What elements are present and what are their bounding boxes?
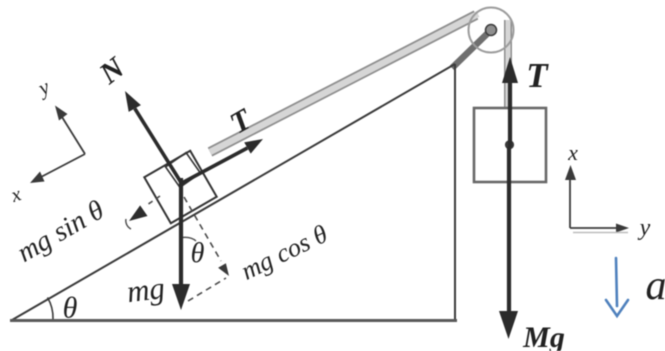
svg-text:x: x	[8, 183, 24, 207]
svg-text:Mg: Mg	[522, 321, 565, 351]
svg-text:y: y	[638, 215, 651, 241]
svg-text:θ: θ	[191, 238, 205, 269]
svg-text:x: x	[567, 140, 578, 165]
svg-text:N: N	[93, 50, 132, 91]
svg-text:mg: mg	[125, 270, 167, 309]
svg-text:y: y	[33, 74, 54, 101]
svg-text:mg cos θ: mg cos θ	[236, 219, 332, 286]
svg-text:T: T	[526, 56, 549, 95]
svg-text:mg sin θ: mg sin θ	[12, 194, 110, 268]
svg-text:a: a	[646, 263, 665, 309]
svg-text:θ: θ	[63, 292, 78, 325]
